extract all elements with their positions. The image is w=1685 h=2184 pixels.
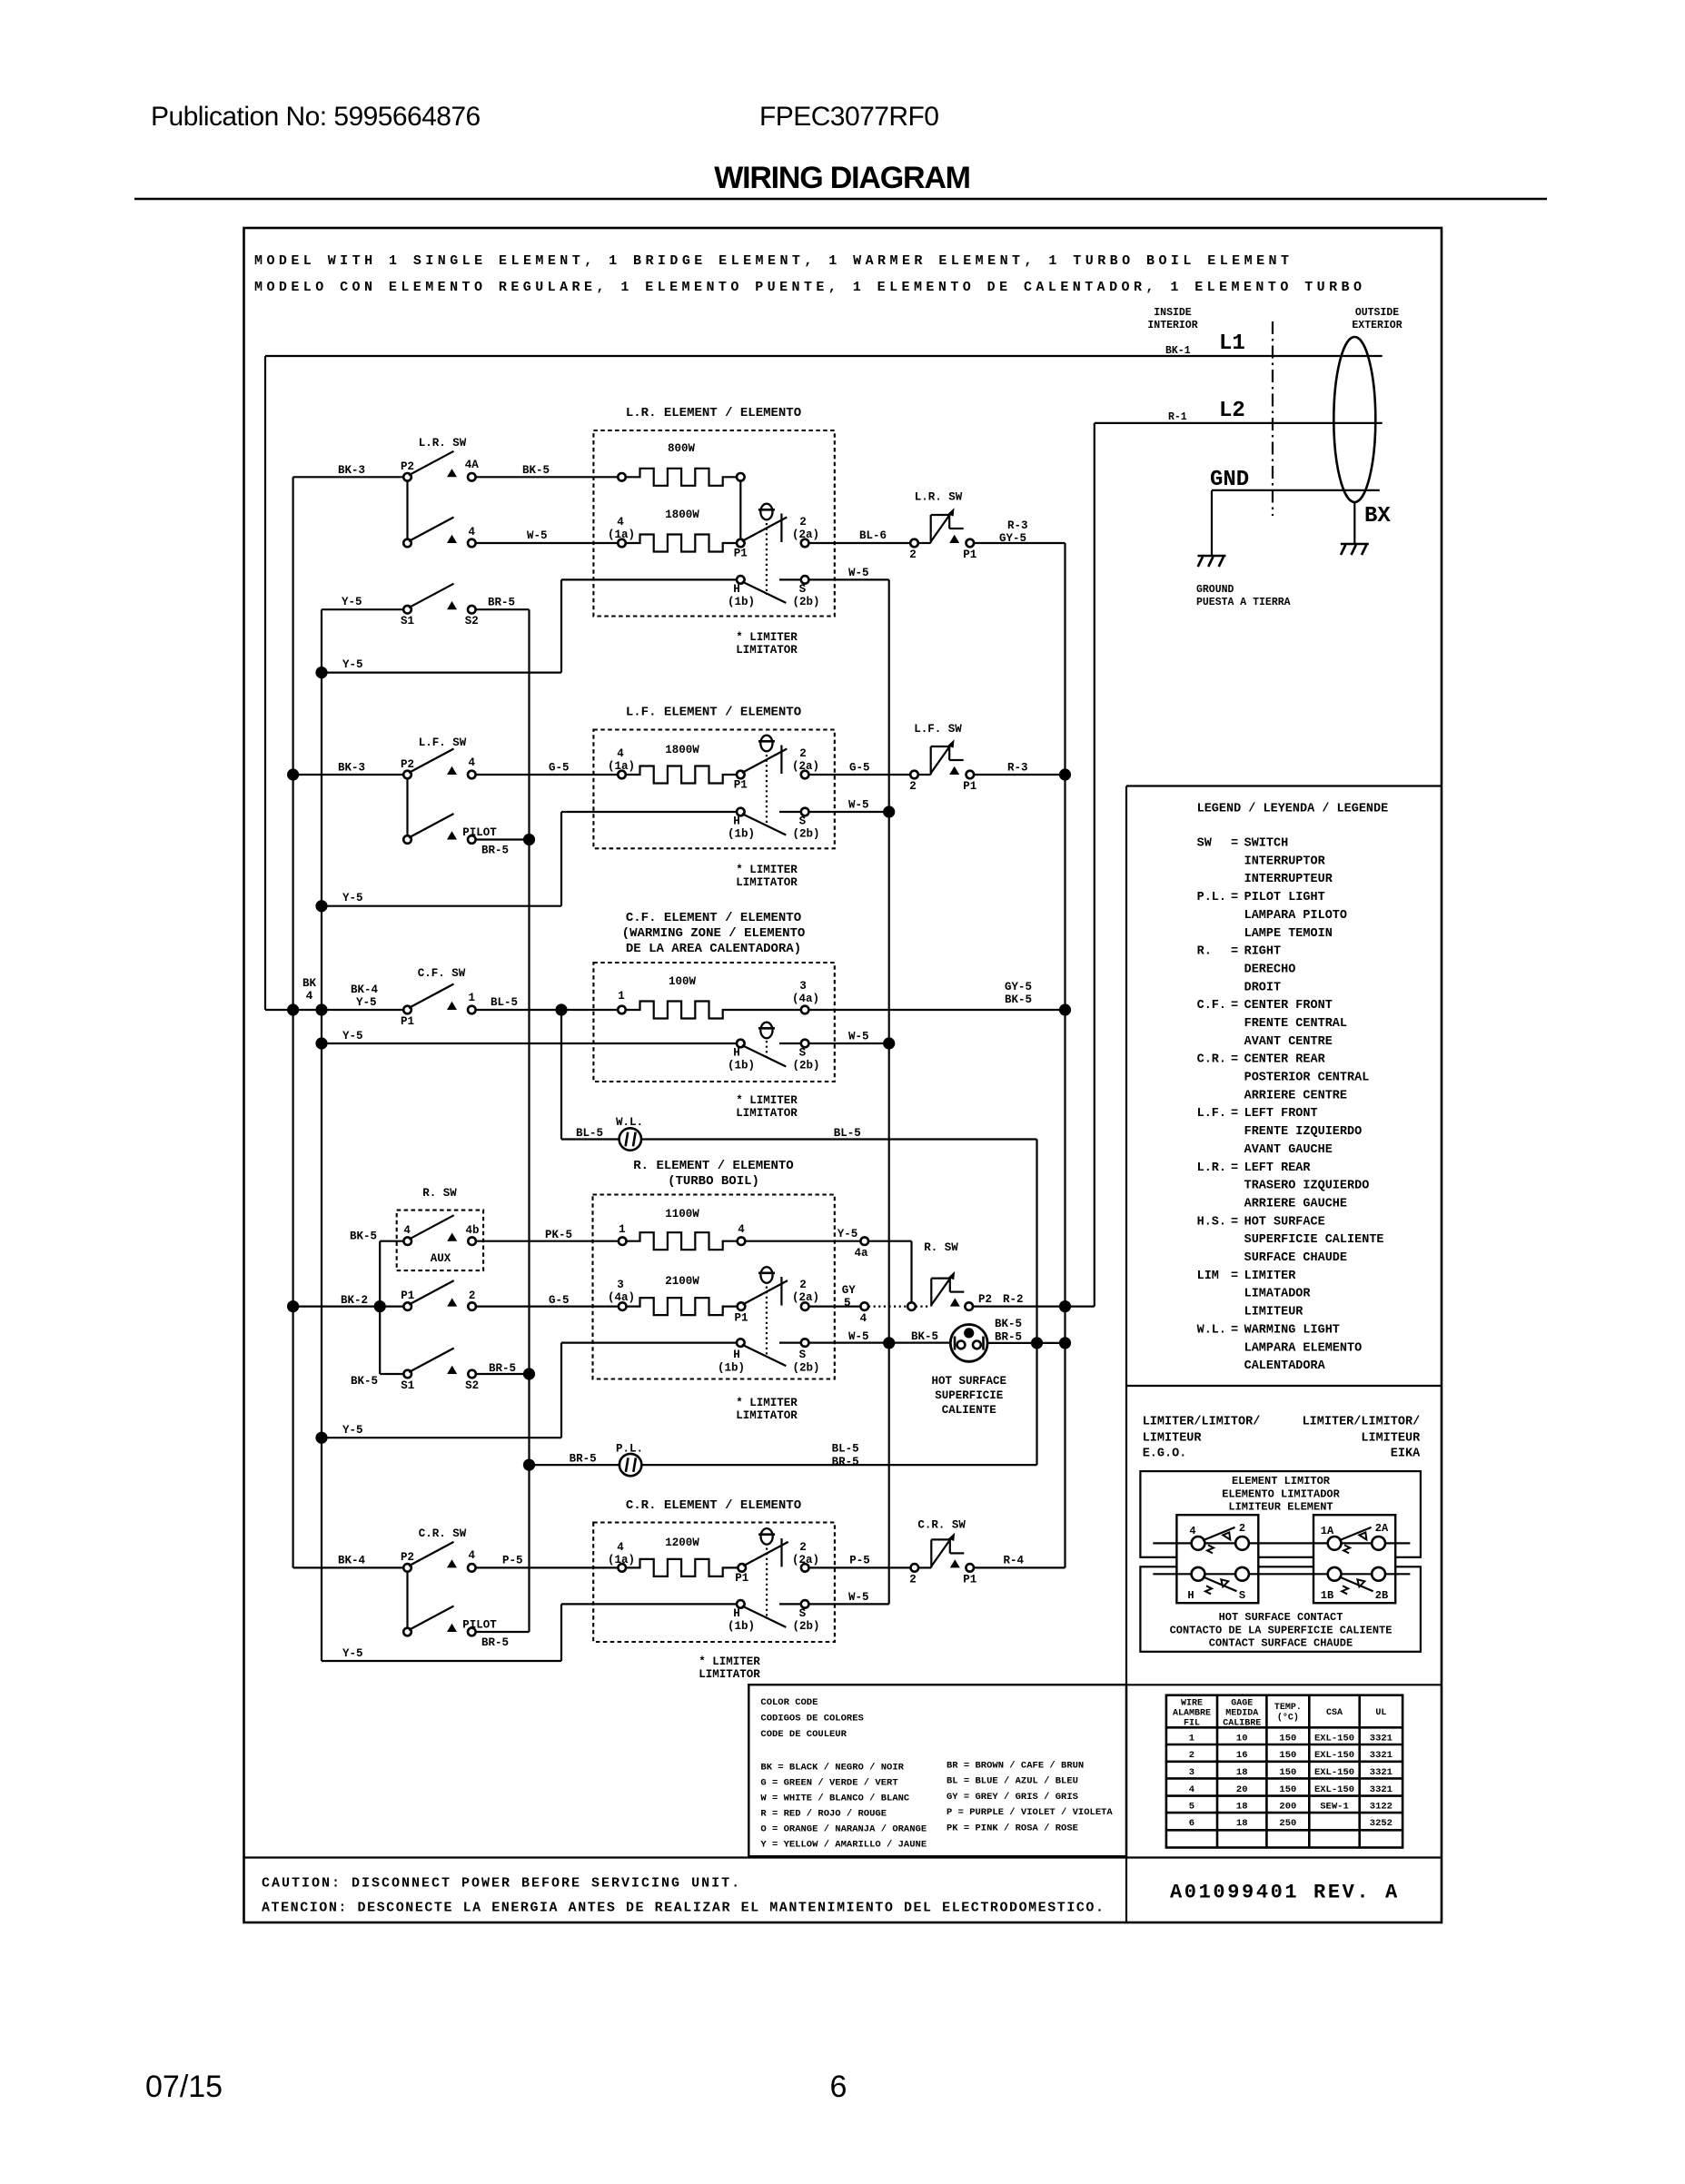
- label OUTSIDE EXTERIOR: [1352, 307, 1402, 331]
- terminal 2a L.F.: [801, 771, 809, 779]
- svg-text:1A: 1A: [1321, 1525, 1334, 1537]
- svg-text:200: 200: [1279, 1802, 1296, 1813]
- label BR-5: [488, 597, 515, 609]
- svg-text:4: 4: [860, 1312, 867, 1325]
- svg-text:1800W: 1800W: [665, 744, 699, 756]
- svg-text:ARRIERE GAUCHE: ARRIERE GAUCHE: [1244, 1198, 1347, 1211]
- label ELEMENT LIMITOR titles: [1222, 1475, 1340, 1514]
- wire warming light vertical: [1036, 1140, 1037, 1466]
- svg-text:BK-5: BK-5: [522, 464, 550, 477]
- dashed limiter link L.R.: [766, 523, 768, 595]
- svg-text:EXL-150: EXL-150: [1314, 1784, 1354, 1795]
- svg-text:BK-3: BK-3: [338, 464, 365, 477]
- wire W-5 BK-5 row R: [808, 1341, 950, 1343]
- wire bus BK-3/BK-2 vertical: [292, 477, 294, 1567]
- switch PILOT L.F.: [403, 778, 529, 844]
- junction W-5 bus R: [883, 1337, 895, 1349]
- svg-text:R-4: R-4: [1004, 1555, 1025, 1567]
- dotted probe wire 2: [916, 1305, 931, 1307]
- svg-text:(1b): (1b): [718, 1362, 745, 1375]
- svg-text:4: 4: [1189, 1784, 1194, 1795]
- label 4 (1a): [608, 747, 635, 773]
- label 2 (2a): [792, 747, 819, 773]
- svg-text:CODIGOS DE COLORES: CODIGOS DE COLORES: [760, 1713, 863, 1724]
- svg-text:3321: 3321: [1370, 1784, 1393, 1795]
- svg-text:GY-5: GY-5: [1005, 981, 1032, 993]
- label Y-5: [342, 1647, 363, 1660]
- svg-text:S: S: [799, 583, 807, 596]
- label L2: [1219, 399, 1245, 423]
- svg-text:ELEMENTO LIMITADOR: ELEMENTO LIMITADOR: [1222, 1488, 1340, 1501]
- svg-text:BR = BROWN / CAFE / BRUN: BR = BROWN / CAFE / BRUN: [947, 1761, 1084, 1772]
- limiter switch left bottom H-S: [1192, 1567, 1249, 1594]
- svg-text:150: 150: [1279, 1767, 1296, 1778]
- label BK-5: [522, 464, 550, 477]
- svg-text:FPEC3077RF0: FPEC3077RF0: [759, 102, 938, 132]
- switch L.R. SW second pole: [403, 481, 475, 548]
- dashed limiter link C.F.: [766, 1041, 768, 1061]
- label W-5: [527, 529, 548, 542]
- label Y-5 row1: [342, 658, 363, 671]
- terminal P1 right: [966, 539, 975, 548]
- svg-text:16: 16: [1236, 1750, 1248, 1761]
- divider vertical line right column: [1125, 786, 1127, 1923]
- svg-text:SWITCH: SWITCH: [1244, 837, 1289, 851]
- label INSIDE INTERIOR: [1147, 307, 1197, 331]
- legend box bottom line: [1126, 1385, 1442, 1387]
- wire W-5 to bus L.F.: [808, 811, 888, 813]
- svg-text:18: 18: [1236, 1767, 1248, 1778]
- svg-text:4: 4: [617, 516, 624, 529]
- svg-text:P1: P1: [401, 1015, 414, 1028]
- model description line 2: [254, 280, 1362, 295]
- title WIRING DIAGRAM: [714, 161, 970, 195]
- dashed box L.R. element: [593, 430, 834, 617]
- hot surface connector: [950, 1325, 987, 1362]
- svg-text:SUPERFICIE CALIENTE: SUPERFICIE CALIENTE: [1244, 1233, 1384, 1247]
- limiter sub-box left: [1176, 1515, 1258, 1603]
- svg-text:BK = BLACK / NEGRO / NOIR: BK = BLACK / NEGRO / NOIR: [760, 1763, 904, 1774]
- svg-text:FRENTE CENTRAL: FRENTE CENTRAL: [1244, 1017, 1347, 1031]
- label BK-4: [338, 1555, 366, 1567]
- svg-text:GND: GND: [1210, 468, 1249, 492]
- label Y-5: [342, 596, 362, 608]
- svg-text:G-5: G-5: [549, 762, 570, 775]
- svg-text:W-5: W-5: [848, 799, 869, 812]
- label P2: [401, 758, 414, 771]
- svg-text:BL-5: BL-5: [576, 1127, 603, 1140]
- svg-text:LAMPE TEMOIN: LAMPE TEMOIN: [1244, 927, 1333, 941]
- label R-3 GY-5: [999, 519, 1028, 545]
- svg-text:P1: P1: [735, 1572, 748, 1585]
- wire W-5 row: [476, 542, 619, 544]
- svg-text:CONTACTO DE LA SUPERFICIE CALI: CONTACTO DE LA SUPERFICIE CALIENTE: [1170, 1625, 1393, 1637]
- svg-text:BR-5: BR-5: [995, 1331, 1022, 1344]
- svg-text:2: 2: [1189, 1750, 1194, 1761]
- terminal P2 R: [965, 1302, 973, 1310]
- labels 1A 2A: [1321, 1522, 1389, 1537]
- svg-text:3: 3: [617, 1279, 624, 1291]
- svg-text:Y-5: Y-5: [838, 1228, 858, 1240]
- svg-text:1: 1: [618, 990, 625, 1003]
- outer border box: [244, 228, 1442, 1922]
- limiter contacts H S L.R.: [737, 576, 808, 603]
- svg-text:L.F. SW: L.F. SW: [914, 723, 962, 736]
- svg-text:CSA: CSA: [1326, 1708, 1343, 1718]
- label W-5: [848, 567, 869, 579]
- svg-text:L.F. SW: L.F. SW: [419, 736, 467, 749]
- label BK-5: [911, 1330, 938, 1343]
- label 3 (4a): [608, 1279, 635, 1304]
- thermostat theta R: [758, 1267, 775, 1283]
- svg-text:3: 3: [1189, 1767, 1194, 1778]
- svg-text:250: 250: [1279, 1818, 1296, 1829]
- svg-text:6: 6: [1189, 1818, 1194, 1829]
- svg-text:=: =: [1231, 1161, 1238, 1175]
- svg-text:SURFACE CHAUDE: SURFACE CHAUDE: [1244, 1251, 1347, 1265]
- ground stem interior: [1211, 490, 1213, 556]
- wire BK-3 row L.F.: [287, 768, 403, 780]
- svg-text:LIMITER: LIMITER: [1244, 1270, 1297, 1283]
- section title C.R. ELEMENT: [626, 1498, 801, 1513]
- legend box top line: [1126, 785, 1442, 786]
- svg-text:2: 2: [1239, 1522, 1245, 1535]
- svg-text:R.: R.: [1197, 945, 1212, 959]
- label BK-1: [1165, 345, 1191, 357]
- svg-text:4a: 4a: [854, 1247, 868, 1260]
- svg-text:BR-5: BR-5: [481, 1636, 509, 1649]
- svg-text:GY-5: GY-5: [999, 532, 1026, 545]
- terminal 2a L.R.: [801, 539, 809, 548]
- section title L.F. ELEMENT: [626, 706, 801, 720]
- hot surface contact lower box: [1140, 1566, 1421, 1652]
- label P1: [963, 1574, 976, 1586]
- svg-text:(2b): (2b): [792, 1362, 819, 1375]
- pilot lamp P.L.: [619, 1454, 641, 1476]
- svg-text:W-5: W-5: [848, 1031, 869, 1043]
- label P2 R-2: [978, 1293, 1024, 1306]
- labels H (1b) S (2b) R: [718, 1349, 820, 1375]
- resistor 1800W L.F.: [618, 766, 737, 784]
- label P1: [734, 548, 748, 560]
- svg-text:ATENCION: DESCONECTE LA ENERGI: ATENCION: DESCONECTE LA ENERGIA ANTES DE…: [262, 1901, 1105, 1916]
- svg-text:Y-5: Y-5: [342, 1647, 363, 1660]
- label 1800W: [665, 509, 699, 521]
- svg-text:DERECHO: DERECHO: [1244, 963, 1296, 976]
- label 2: [909, 1574, 917, 1586]
- terminal 2a C.R.: [801, 1564, 809, 1572]
- svg-text:BX: BX: [1364, 504, 1391, 529]
- label 4: [860, 1312, 867, 1325]
- wire G-5 R: [476, 1305, 619, 1307]
- svg-text:R-3: R-3: [1007, 519, 1028, 532]
- label L.F. SW right: [914, 723, 962, 736]
- svg-text:ELEMENT LIMITOR: ELEMENT LIMITOR: [1232, 1475, 1331, 1487]
- svg-text:BL-5: BL-5: [834, 1127, 861, 1140]
- label 4: [469, 756, 476, 769]
- svg-text:C.R. SW: C.R. SW: [917, 1519, 966, 1532]
- svg-text:UL: UL: [1375, 1708, 1386, 1718]
- svg-text:=: =: [1231, 1215, 1238, 1229]
- wire link vertical x618 LR: [560, 579, 562, 672]
- svg-text:LAMPARA PILOTO: LAMPARA PILOTO: [1244, 909, 1347, 923]
- wire W-5 to bus C.F.: [808, 1043, 888, 1044]
- svg-text:H: H: [733, 1047, 740, 1060]
- svg-text:BL-5: BL-5: [832, 1443, 859, 1456]
- label LIMITER LIMITATOR L.R.: [736, 631, 798, 657]
- svg-text:=: =: [1231, 1107, 1238, 1121]
- label LIMITER LIMITATOR R: [736, 1397, 798, 1422]
- wire pilot light row: [530, 1464, 1037, 1466]
- label P1: [963, 548, 976, 561]
- svg-text:(1b): (1b): [728, 828, 755, 841]
- svg-text:Y = YELLOW / AMARILLO / JAUNE: Y = YELLOW / AMARILLO / JAUNE: [760, 1840, 927, 1851]
- svg-text:(2b): (2b): [792, 1620, 819, 1633]
- switch C.F. SW: [403, 984, 475, 1014]
- svg-text:GY: GY: [842, 1284, 857, 1297]
- limiter contacts H S L.F.: [737, 808, 808, 835]
- label C.R. SW right: [917, 1519, 966, 1532]
- label 4: [469, 526, 476, 539]
- svg-text:P-5: P-5: [849, 1555, 870, 1567]
- wire gauge table data: [1189, 1734, 1393, 1830]
- svg-text:BK-3: BK-3: [338, 762, 365, 775]
- wire L1 BK-1: [265, 355, 1383, 357]
- label 2: [909, 780, 917, 793]
- svg-text:LIM: LIM: [1197, 1270, 1219, 1283]
- label P1: [734, 779, 748, 792]
- caution text spanish: [262, 1901, 1105, 1916]
- drawing number A01099401 REV. A: [1170, 1882, 1400, 1904]
- svg-text:S: S: [799, 1349, 807, 1361]
- svg-text:150: 150: [1279, 1734, 1296, 1744]
- contact bar L.F.: [780, 746, 782, 775]
- label L.R. SW: [419, 437, 467, 450]
- resistor 100W: [618, 1002, 801, 1019]
- svg-text:R-3: R-3: [1007, 762, 1028, 775]
- svg-text:H: H: [733, 815, 740, 828]
- contact P1 L.F.: [737, 749, 787, 779]
- label LIMITER LIMITATOR L.F.: [736, 864, 798, 889]
- svg-text:BK-5: BK-5: [995, 1318, 1022, 1330]
- svg-text:INSIDE: INSIDE: [1154, 307, 1192, 319]
- svg-text:P1: P1: [734, 779, 748, 792]
- junction R-3 bus L.F.: [1059, 768, 1071, 780]
- svg-text:C.F. SW: C.F. SW: [418, 967, 466, 980]
- svg-text:Y-5: Y-5: [342, 1424, 363, 1437]
- svg-text:CALIENTE: CALIENTE: [942, 1404, 996, 1417]
- wire link vertical x618 CF to WL: [560, 1010, 562, 1140]
- energy regulator switch R: [931, 1271, 964, 1307]
- thermostat theta L.R.: [758, 504, 775, 520]
- energy regulator switch C.R.: [931, 1533, 964, 1568]
- wire connector to buses: [987, 1337, 1071, 1349]
- label GY 5: [842, 1284, 857, 1309]
- svg-text:4: 4: [469, 1549, 476, 1562]
- label BR-5: [489, 1362, 516, 1375]
- svg-text:SEW-1: SEW-1: [1320, 1802, 1349, 1813]
- svg-text:BK-4: BK-4: [338, 1555, 366, 1567]
- title rule line: [134, 198, 1547, 201]
- svg-text:2: 2: [909, 548, 917, 561]
- svg-text:H: H: [733, 1349, 740, 1361]
- svg-text:PK-5: PK-5: [545, 1229, 572, 1241]
- limiter bus line bottom: [1153, 1573, 1410, 1575]
- footer page number 6: [830, 2070, 847, 2104]
- label LIMITER/LIMITOR/LIMITEUR E.G.O.: [1143, 1416, 1261, 1461]
- svg-text:(1b): (1b): [728, 1060, 755, 1072]
- label 1: [469, 992, 476, 1004]
- svg-text:150: 150: [1279, 1750, 1296, 1761]
- svg-text:CENTER REAR: CENTER REAR: [1244, 1053, 1326, 1067]
- svg-text:P-5: P-5: [502, 1555, 523, 1567]
- labels H (1b) S (2b) C.F.: [728, 1047, 820, 1072]
- label 3 (4a): [792, 980, 819, 1005]
- svg-text:2: 2: [799, 1541, 807, 1554]
- svg-text:=: =: [1231, 945, 1238, 959]
- svg-text:4: 4: [306, 990, 313, 1003]
- svg-text:L2: L2: [1219, 399, 1245, 423]
- label HOT SURFACE CONTACT titles: [1170, 1611, 1393, 1650]
- labels 4 2: [1189, 1522, 1245, 1537]
- svg-text:(1b): (1b): [728, 596, 755, 608]
- svg-text:BK-5: BK-5: [351, 1375, 378, 1388]
- label 4A: [465, 459, 480, 471]
- caution section top line: [244, 1856, 1442, 1858]
- svg-text:SUPERFICIE: SUPERFICIE: [935, 1389, 1003, 1402]
- wire to 4a: [745, 1240, 860, 1242]
- svg-text:3321: 3321: [1370, 1734, 1393, 1744]
- terminal 2: [910, 539, 918, 548]
- svg-text:PILOT: PILOT: [462, 1619, 497, 1632]
- wire W-5 to bus C.R.: [808, 1603, 888, 1605]
- svg-text:=: =: [1231, 1270, 1238, 1283]
- label BK-5: [350, 1230, 377, 1243]
- terminal P1 right: [966, 1564, 974, 1572]
- wire bus W-5 vertical: [888, 579, 890, 1604]
- svg-text:A01099401 REV. A: A01099401 REV. A: [1170, 1882, 1400, 1904]
- wire G-5: [476, 774, 619, 776]
- svg-text:S1: S1: [401, 615, 414, 628]
- svg-text:3: 3: [799, 980, 807, 993]
- label 4: [738, 1223, 745, 1236]
- terminal probe circle: [907, 1302, 916, 1310]
- label BK-5 BR-5 stacked: [995, 1318, 1022, 1344]
- wire 4a corner drop: [868, 1241, 912, 1303]
- svg-text:100W: 100W: [669, 975, 697, 988]
- svg-text:Y-5: Y-5: [342, 892, 363, 904]
- label 2 (2a): [792, 1541, 819, 1566]
- terminal P1 right: [966, 771, 975, 779]
- svg-text:W = WHITE / BLANCO / BLANC: W = WHITE / BLANCO / BLANC: [760, 1794, 910, 1804]
- svg-text:BR-5: BR-5: [570, 1453, 597, 1466]
- svg-text:LIMITEUR: LIMITEUR: [1143, 1432, 1203, 1446]
- svg-text:BL-5: BL-5: [491, 996, 518, 1009]
- svg-text:1800W: 1800W: [665, 509, 699, 521]
- svg-text:4: 4: [617, 1541, 624, 1554]
- svg-text:L.R. SW: L.R. SW: [915, 491, 963, 504]
- wire bus BR-5 vertical: [528, 609, 530, 1632]
- wire Y-5 H row C.F.: [315, 1037, 737, 1049]
- svg-text:BK-5: BK-5: [350, 1230, 377, 1243]
- label P1: [401, 1015, 414, 1028]
- label 4 (1a): [608, 1541, 635, 1566]
- svg-text:O = ORANGE / NARANJA / ORANGE: O = ORANGE / NARANJA / ORANGE: [760, 1824, 927, 1835]
- label W-5: [848, 1031, 869, 1043]
- label C.F. SW: [418, 967, 466, 980]
- svg-text:W.L.: W.L.: [1197, 1323, 1226, 1337]
- limiter switch right top 1A-2A: [1328, 1527, 1385, 1554]
- svg-text:6: 6: [830, 2070, 847, 2104]
- labels H (1b) S (2b) C.R.: [728, 1607, 820, 1633]
- svg-text:1200W: 1200W: [665, 1537, 699, 1549]
- svg-text:EXL-150: EXL-150: [1314, 1734, 1354, 1744]
- svg-text:H: H: [733, 1607, 740, 1620]
- label G-5: [549, 762, 570, 775]
- page header model number: [759, 102, 938, 132]
- warming light lamp W.L.: [619, 1128, 641, 1150]
- wire BK-4 row C.R.: [293, 1566, 404, 1568]
- ground symbol interior: [1198, 556, 1226, 567]
- svg-text:R. SW: R. SW: [422, 1187, 457, 1200]
- svg-text:5: 5: [844, 1297, 851, 1309]
- resistor 1100W: [619, 1232, 745, 1250]
- dashed box C.R. element: [593, 1523, 835, 1643]
- svg-text:CALIBRE: CALIBRE: [1223, 1719, 1261, 1729]
- label PILOT: [462, 826, 497, 839]
- label GND: [1210, 468, 1249, 492]
- svg-text:CAUTION: DISCONNECT POWER BEF: CAUTION: DISCONNECT POWER BEFORE SERVICI…: [262, 1876, 741, 1892]
- svg-text:H: H: [733, 583, 740, 596]
- dashed box R element: [593, 1195, 835, 1379]
- wire GY-5 BK-5 to bus: [808, 1009, 1065, 1011]
- label BL-5: [491, 996, 518, 1009]
- wire bus L2 vertical: [1094, 423, 1095, 1307]
- svg-text:4: 4: [617, 747, 624, 760]
- label S1 S2: [401, 615, 479, 628]
- svg-text:HOT SURFACE: HOT SURFACE: [931, 1375, 1006, 1388]
- label 2100W: [665, 1275, 699, 1288]
- wire L2 R-1: [1095, 422, 1383, 424]
- svg-text:GROUND: GROUND: [1196, 584, 1234, 596]
- svg-text:E.G.O.: E.G.O.: [1143, 1448, 1187, 1461]
- terminal 2a R: [801, 1302, 809, 1310]
- svg-text:LEGEND / LEYENDA / LEGENDE: LEGEND / LEYENDA / LEGENDE: [1197, 803, 1389, 816]
- svg-text:Publication No: 5995664876: Publication No: 5995664876: [151, 102, 481, 132]
- switch R SW P1: [403, 1280, 475, 1310]
- svg-text:G-5: G-5: [549, 1294, 570, 1307]
- color code entries left: [760, 1763, 927, 1851]
- svg-text:(2b): (2b): [792, 1060, 819, 1072]
- terminal 4a C.F.: [801, 1006, 809, 1014]
- svg-text:W-5: W-5: [527, 529, 548, 542]
- svg-text:(4a): (4a): [608, 1291, 635, 1304]
- wire limiter H row L.R.: [561, 578, 737, 580]
- svg-text:R. ELEMENT / ELEMENTO: R. ELEMENT / ELEMENTO: [633, 1159, 793, 1173]
- svg-text:150: 150: [1279, 1784, 1296, 1795]
- wire PK-5: [476, 1240, 619, 1242]
- wire gauge table grid: [1166, 1695, 1403, 1848]
- svg-text:COLOR CODE: COLOR CODE: [760, 1697, 818, 1708]
- limiter contacts H S C.F.: [737, 1040, 808, 1067]
- svg-text:L1: L1: [1219, 331, 1245, 356]
- label BR-5 left: [570, 1453, 597, 1466]
- label C.R. SW: [419, 1527, 467, 1540]
- wire gauge table frame: [1166, 1695, 1403, 1848]
- resistor 1200W: [618, 1559, 738, 1576]
- label R-4: [1004, 1555, 1025, 1567]
- cable loop ellipse: [1333, 337, 1375, 502]
